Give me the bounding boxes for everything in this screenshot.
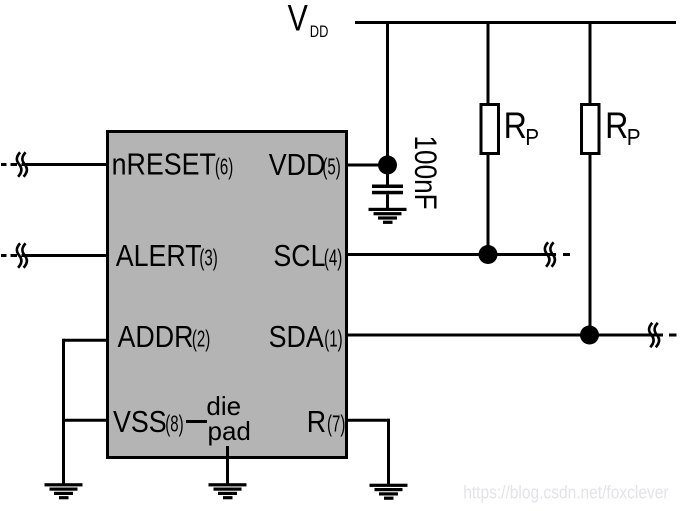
svg-text:V: V <box>288 0 309 39</box>
wire R(7) to ground <box>387 419 390 484</box>
ground below VSS wire <box>45 483 83 499</box>
svg-text:R: R <box>307 405 326 439</box>
break symbol nRESET <box>1 152 27 176</box>
svg-text:pad: pad <box>208 416 251 446</box>
label RP2 <box>605 106 640 150</box>
svg-text:R: R <box>504 106 527 147</box>
wire capacitor to ground <box>386 194 389 208</box>
wire rail to resistor RP2 <box>589 21 592 104</box>
svg-text:https://blog.csdn.net/foxcleve: https://blog.csdn.net/foxclever <box>463 483 669 503</box>
svg-text:(5): (5) <box>322 154 340 180</box>
wire ALERT <box>22 254 108 257</box>
label RP1 <box>504 106 539 150</box>
svg-text:DD: DD <box>310 23 329 41</box>
svg-text:nRESET: nRESET <box>112 148 217 182</box>
wire rail to resistor RP1 <box>487 21 490 104</box>
break symbol SCL <box>545 242 570 266</box>
wire VDD pin <box>346 164 388 167</box>
svg-text:VDD: VDD <box>269 148 326 182</box>
pin label ALERT(3) <box>116 239 218 273</box>
break symbol ALERT <box>1 243 27 267</box>
IC body U1 <box>108 132 347 458</box>
wire die pad to ground <box>226 446 229 484</box>
junction node SDA <box>580 326 599 345</box>
wire rail to VDD pin <box>386 21 389 166</box>
wire junction to capacitor <box>386 165 389 185</box>
capacitor C1 100nF <box>372 185 403 195</box>
die pad label <box>206 391 250 446</box>
wire resistor RP1 to SCL <box>487 154 490 255</box>
ground below die pad <box>209 483 247 499</box>
pin label SCL(4) <box>273 239 342 273</box>
svg-text:P: P <box>627 124 641 150</box>
svg-text:SCL: SCL <box>273 239 325 273</box>
ground below R(7) <box>370 484 408 500</box>
wire R(7) <box>347 419 390 422</box>
svg-text:(1): (1) <box>324 326 342 352</box>
pin label R(7) <box>307 405 346 439</box>
svg-text:SDA: SDA <box>269 320 325 354</box>
junction node SCL <box>479 245 498 264</box>
svg-text:ALERT: ALERT <box>116 239 202 273</box>
pin label SDA(1) <box>269 320 343 354</box>
svg-text:VSS: VSS <box>113 405 167 439</box>
wire VSS to ground <box>62 420 65 483</box>
svg-text:(7): (7) <box>327 411 345 437</box>
pin label VDD(5) <box>269 148 341 182</box>
svg-text:(6): (6) <box>215 154 233 180</box>
svg-text:(4): (4) <box>324 245 342 271</box>
svg-text:P: P <box>525 124 539 150</box>
net label VDD <box>288 0 329 41</box>
svg-text:100nF: 100nF <box>408 136 443 210</box>
wire SCL <box>346 253 556 256</box>
wire ADDR <box>64 339 108 342</box>
wire nRESET <box>22 163 108 166</box>
wire SDA <box>346 334 663 337</box>
VDD supply rail <box>355 21 676 24</box>
wire ADDR to VSS vertical <box>62 339 65 422</box>
wire VSS <box>64 419 108 422</box>
dash VSS(8) to die pad <box>186 420 207 423</box>
ground below capacitor <box>369 208 407 224</box>
pin label VSS(8) <box>113 405 184 439</box>
svg-text:ADDR: ADDR <box>118 320 194 354</box>
svg-text:(2): (2) <box>192 326 210 352</box>
wire resistor RP2 to SDA <box>589 154 592 336</box>
resistor RP2 <box>582 105 600 154</box>
svg-text:(3): (3) <box>199 245 217 271</box>
svg-text:R: R <box>605 106 628 147</box>
svg-text:(8): (8) <box>165 411 183 437</box>
resistor RP1 <box>481 105 499 154</box>
junction node VDD pin <box>378 156 397 175</box>
break symbol SDA <box>649 323 676 347</box>
pin label ADDR(2) <box>118 320 211 354</box>
pin label nRESET(6) <box>112 148 234 182</box>
